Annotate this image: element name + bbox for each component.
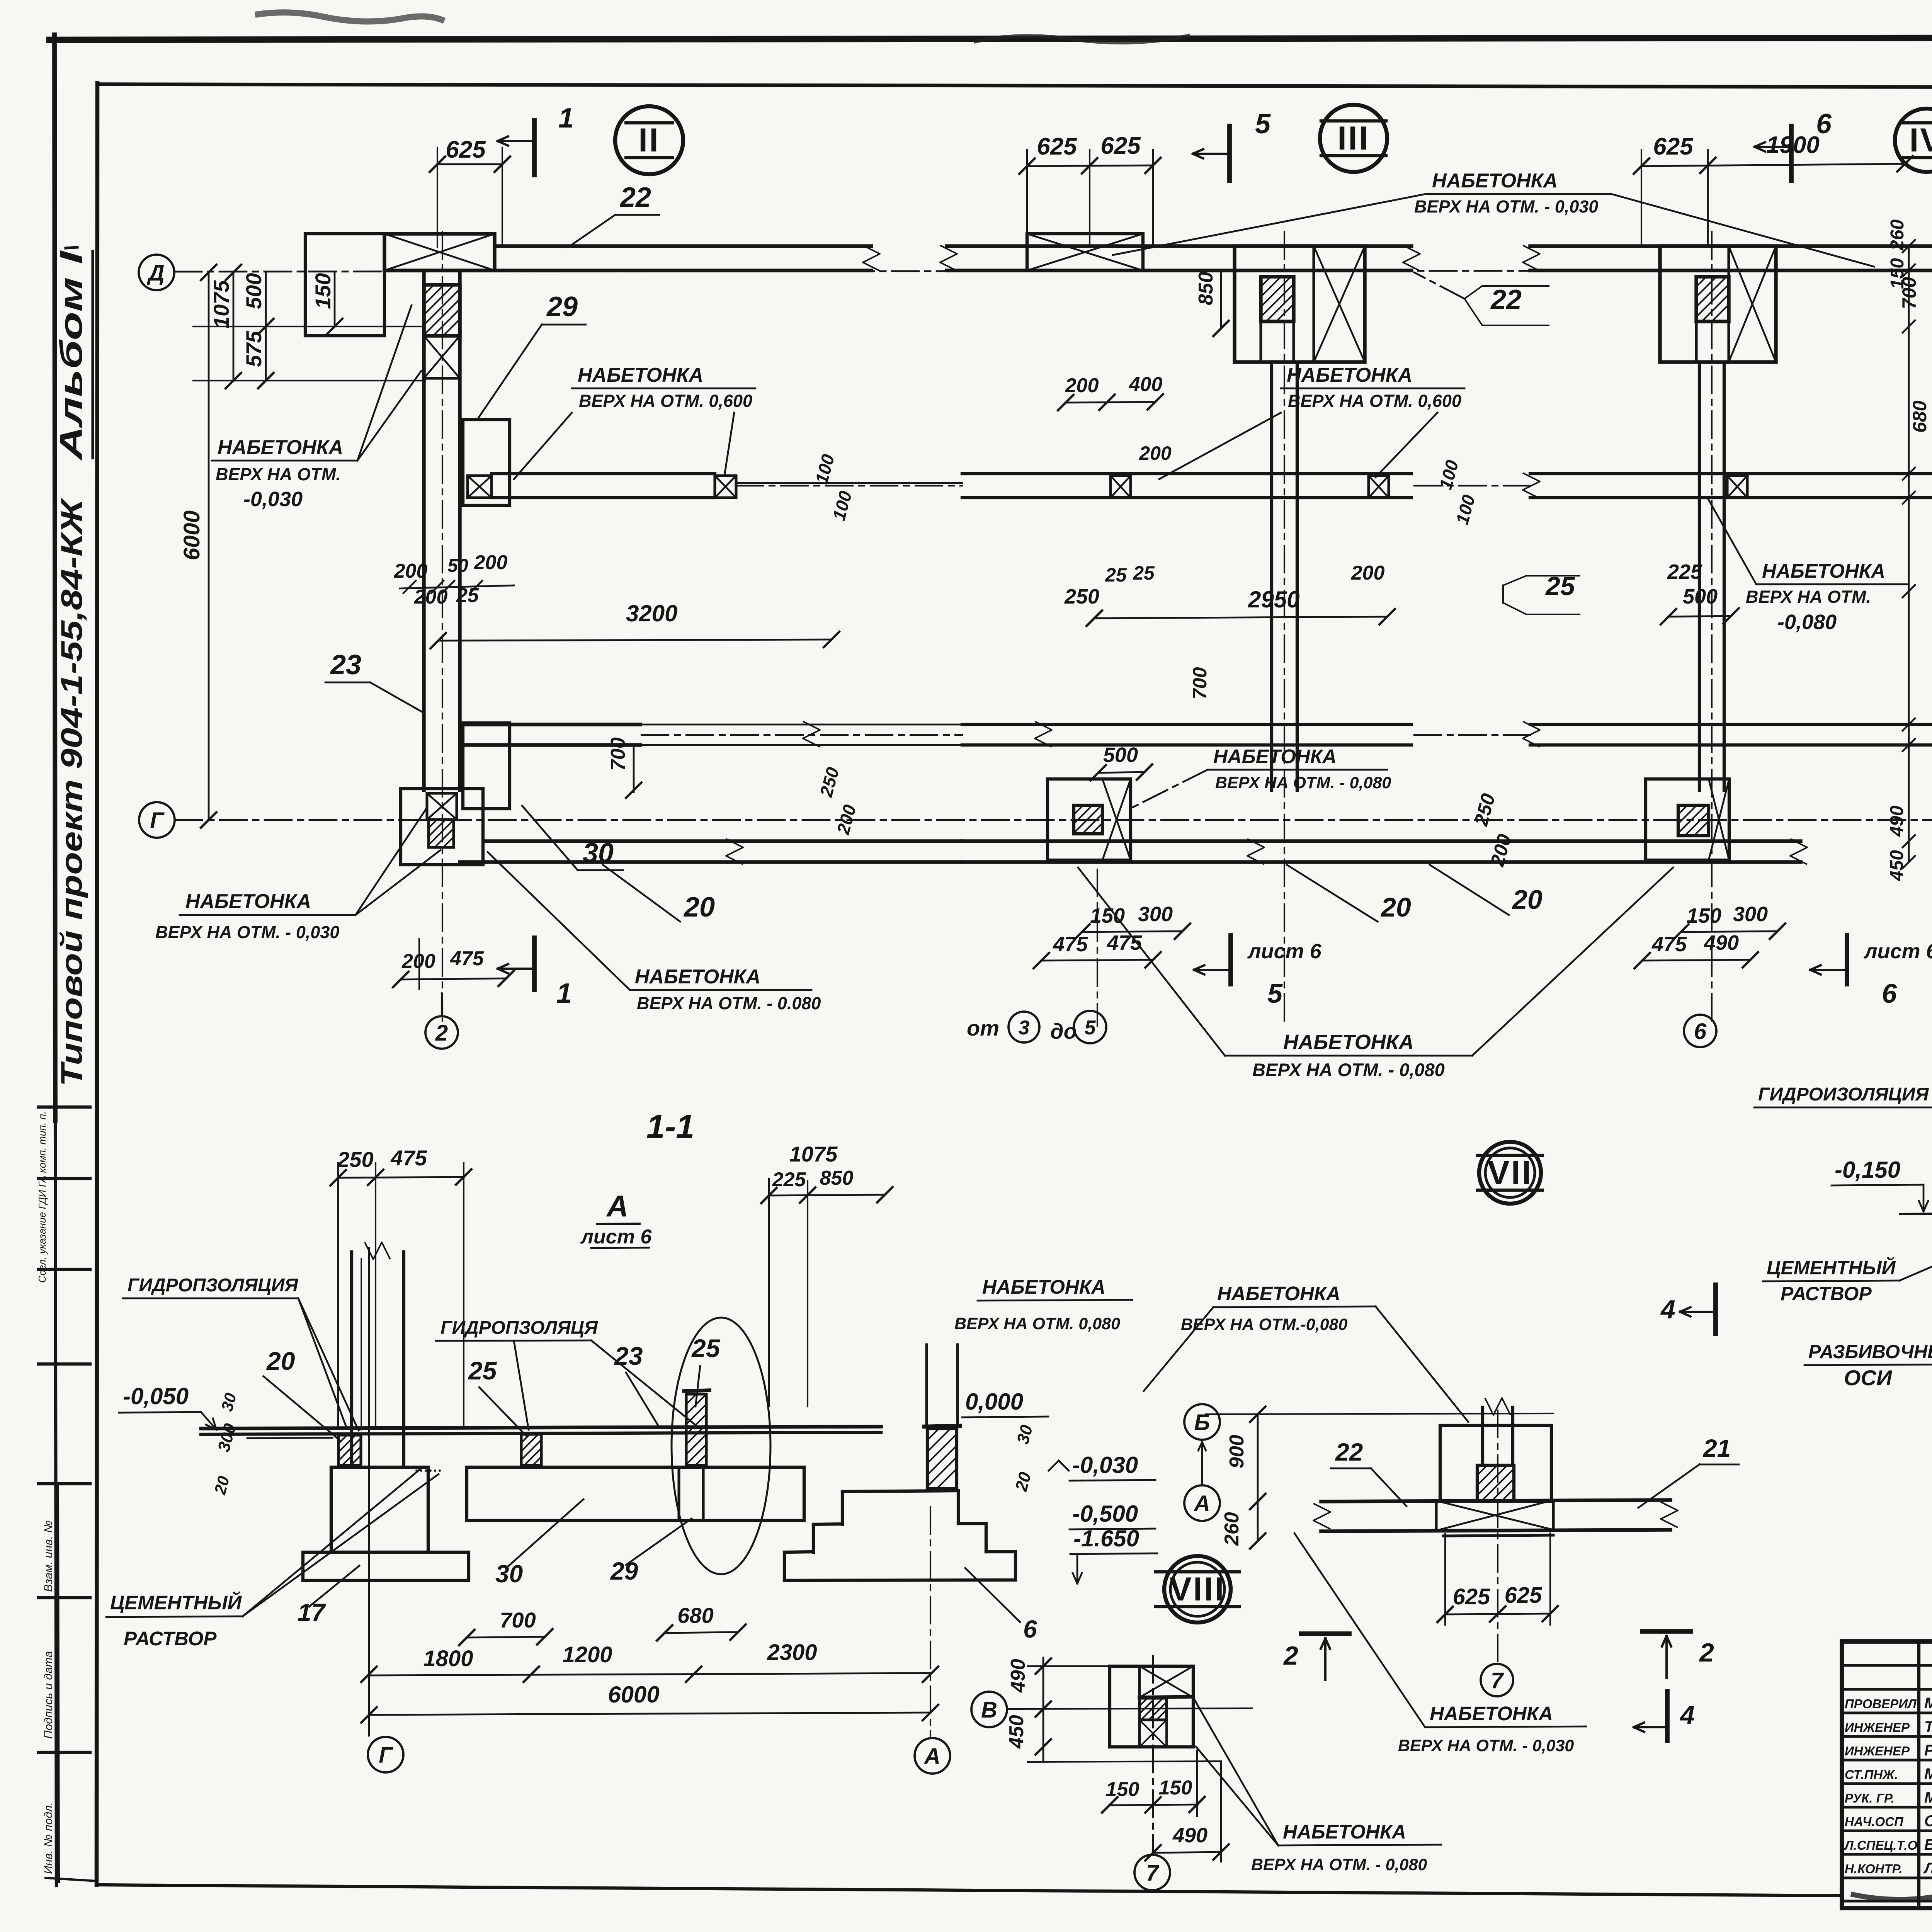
svg-text:1075: 1075: [209, 280, 233, 328]
svg-text:ГИДРОПЗОЛЯЦИЯ: ГИДРОПЗОЛЯЦИЯ: [128, 1275, 298, 1296]
svg-text:МОРГУНОВ: МОРГУНОВ: [1924, 1695, 1932, 1712]
svg-text:ВЕРХ НА ОТМ.: ВЕРХ НА ОТМ.: [216, 464, 341, 484]
svg-text:лист 6: лист 6: [1863, 940, 1932, 963]
scan smudge top left margin: [255, 12, 444, 21]
svg-text:лист 6: лист 6: [580, 1226, 652, 1248]
node III beam X junction: [1027, 234, 1143, 270]
svg-text:450: 450: [1005, 1715, 1028, 1749]
svg-text:НАБЕТОНКА: НАБЕТОНКА: [1213, 745, 1337, 767]
svg-text:Г: Г: [379, 1743, 393, 1768]
svg-text:НАБЕТОНКА: НАБЕТОНКА: [1432, 170, 1558, 192]
svg-text:6: 6: [1023, 1615, 1037, 1643]
VIII left cell divider: [1138, 1666, 1141, 1747]
svg-text:450: 450: [1887, 850, 1907, 881]
svg-text:23: 23: [330, 650, 361, 680]
axis circle А 1-1: [915, 1738, 950, 1774]
svg-text:МОРГУНОВ: МОРГУНОВ: [1924, 1789, 1932, 1806]
svg-text:150: 150: [1159, 1777, 1192, 1799]
svg-text:200: 200: [1351, 562, 1385, 584]
svg-text:Л.СПЕЦ.Т.О.: Л.СПЕЦ.Т.О.: [1844, 1838, 1921, 1852]
svg-text:РАСТВОР: РАСТВОР: [124, 1628, 217, 1650]
svg-text:260: 260: [1887, 219, 1908, 251]
svg-text:ВЕРХ НА ОТМ. - 0.080: ВЕРХ НА ОТМ. - 0.080: [637, 993, 821, 1013]
node IV bottom hatched: [1678, 805, 1709, 836]
axis В line VIII: [971, 1692, 1007, 1727]
svg-text:ВЕРХ НА ОТМ. - 0,080: ВЕРХ НА ОТМ. - 0,080: [1251, 1855, 1427, 1874]
interior beam row1 node II: [468, 476, 492, 498]
node III circle: [1320, 105, 1387, 172]
detail oval ellipse: [672, 1318, 770, 1574]
title block outer box: [1842, 1641, 1932, 1908]
svg-text:СТ.ПНЖ.: СТ.ПНЖ.: [1845, 1767, 1898, 1782]
beam axis Г middle segments: [962, 839, 1801, 843]
svg-text:МАКАРОВА: МАКАРОВА: [1924, 1765, 1932, 1782]
nabetonka block right of column II: [463, 420, 510, 505]
node VII circle: [1479, 1142, 1541, 1204]
svg-text:Согл. указание ГДИ ГА комп: Согл. указание ГДИ ГА комп. тип. п.: [36, 1111, 48, 1283]
VII hatched block: [1477, 1465, 1514, 1501]
svg-text:СААКЬЯНЦ: СААКЬЯНЦ: [1924, 1813, 1932, 1830]
svg-text:625: 625: [1100, 133, 1141, 159]
svg-text:от: от: [967, 1016, 999, 1040]
beam axis Д node III left segment: [947, 244, 1412, 248]
svg-text:490: 490: [1007, 1659, 1029, 1693]
svg-text:Д: Д: [146, 260, 165, 286]
svg-text:НАЧ.ОСП: НАЧ.ОСП: [1845, 1815, 1904, 1829]
svg-text:Г: Г: [150, 808, 165, 833]
axis circle 7 VIII: [1134, 1855, 1170, 1890]
svg-text:150: 150: [1090, 904, 1125, 927]
svg-text:0,000: 0,000: [965, 1389, 1023, 1415]
axis Д circle: [139, 255, 174, 290]
svg-text:В: В: [981, 1697, 997, 1723]
middle pad 1-1: [467, 1467, 804, 1520]
VII column lines: [1481, 1407, 1484, 1465]
axis circle 7 VII: [1481, 1664, 1513, 1696]
sheet outer border top: [49, 37, 1932, 40]
svg-text:250: 250: [337, 1147, 373, 1172]
node IV right dim chain: [1908, 246, 1910, 862]
svg-text:А: А: [923, 1744, 940, 1769]
section mark 4 top near VII: [1713, 1285, 1718, 1334]
svg-text:ВЕРХ НА ОТМ. - 0,080: ВЕРХ НА ОТМ. - 0,080: [1252, 1060, 1445, 1080]
svg-text:лист 6: лист 6: [1247, 940, 1322, 963]
node III column X part: [1314, 246, 1365, 362]
svg-text:2950: 2950: [1248, 587, 1299, 612]
svg-text:475: 475: [450, 947, 484, 970]
inner frame left: [97, 83, 97, 1885]
axis circle А VII: [1184, 1485, 1220, 1521]
svg-text:Альбом I: Альбом I: [54, 250, 89, 461]
svg-text:ИНЖЕНЕР: ИНЖЕНЕР: [1845, 1720, 1910, 1735]
svg-text:ГИДРОПЗОЛЯЦЯ: ГИДРОПЗОЛЯЦЯ: [440, 1318, 598, 1338]
beam along axis Г node II: [486, 839, 962, 843]
svg-text:НАБЕТОНКА: НАБЕТОНКА: [1217, 1282, 1340, 1304]
svg-text:ВЕРХ НА ОТМ.-0,080: ВЕРХ НА ОТМ.-0,080: [1181, 1315, 1347, 1334]
VIII hatched mid: [1139, 1698, 1167, 1720]
cement dots under post1: [415, 1469, 441, 1472]
node II bottom footing block: [401, 789, 483, 865]
svg-text:625: 625: [1037, 133, 1077, 160]
smudge bottom row of table: [1851, 1894, 1932, 1902]
svg-text:ЛУЦЕНКО: ЛУЦЕНКО: [1923, 1860, 1932, 1877]
VII beam: [1321, 1500, 1670, 1502]
svg-text:1900: 1900: [1766, 132, 1820, 158]
node II circle: [615, 106, 683, 174]
section mark 1 top: [532, 120, 537, 175]
svg-text:475: 475: [390, 1146, 427, 1170]
svg-text:300: 300: [1733, 903, 1768, 926]
svg-text:150: 150: [1687, 904, 1721, 927]
svg-text:200: 200: [1065, 374, 1099, 397]
node III bottom footing block: [1048, 779, 1131, 860]
svg-text:VII: VII: [1487, 1154, 1532, 1191]
left footing base 1-1: [303, 1552, 469, 1580]
svg-text:2: 2: [1283, 1641, 1298, 1670]
svg-text:20: 20: [1512, 884, 1543, 915]
svg-text:1800: 1800: [423, 1646, 473, 1671]
axis circle 6 bottom node IV: [1684, 1015, 1716, 1047]
svg-text:680: 680: [1909, 400, 1930, 433]
right column post 22 hatched: [927, 1429, 957, 1489]
svg-text:ИНЖЕНЕР: ИНЖЕНЕР: [1845, 1744, 1910, 1758]
svg-text:200: 200: [394, 560, 428, 582]
title block signature rows: [1842, 1664, 1932, 1667]
svg-text:VIII: VIII: [1169, 1571, 1225, 1608]
node IV circle: [1895, 109, 1932, 172]
svg-text:625: 625: [1653, 133, 1694, 160]
section mark 4 bottom VII: [1665, 1691, 1670, 1741]
node II beam X junction: [384, 234, 495, 270]
svg-text:490: 490: [1172, 1824, 1207, 1847]
svg-text:Типовой проект 904-1-55,84-К: Типовой проект 904-1-55,84-КЖ: [54, 497, 88, 1087]
svg-text:1075: 1075: [789, 1142, 838, 1166]
svg-text:II: II: [638, 122, 660, 159]
svg-text:РУК. ГР.: РУК. ГР.: [1845, 1791, 1895, 1805]
svg-text:29: 29: [610, 1557, 638, 1585]
svg-text:200: 200: [1139, 442, 1172, 464]
svg-text:ВЕРХ НА ОТМ. - 0,030: ВЕРХ НА ОТМ. - 0,030: [155, 922, 339, 942]
svg-text:ВЕРХ НА ОТМ. - 0,030: ВЕРХ НА ОТМ. - 0,030: [1398, 1736, 1574, 1755]
inner frame top: [97, 84, 1932, 88]
left margin stamp boxes line: [58, 1484, 59, 1882]
svg-text:НАБЕТОНКА: НАБЕТОНКА: [578, 364, 703, 386]
axis Г circle: [139, 802, 175, 838]
svg-text:150: 150: [311, 273, 335, 309]
svg-text:-0,080: -0,080: [1777, 611, 1837, 634]
svg-text:ВЕРХ НА ОТМ. 0,600: ВЕРХ НА ОТМ. 0,600: [579, 391, 752, 411]
svg-text:625: 625: [1453, 1584, 1491, 1609]
VIII X box bottom: [1139, 1720, 1167, 1747]
axis circle Г 1-1: [368, 1737, 403, 1772]
column strip node IV: [1698, 362, 1701, 790]
svg-text:500: 500: [1103, 743, 1138, 767]
svg-text:Подпись и дата: Подпись и дата: [42, 1651, 55, 1739]
node IV column block: [1660, 246, 1776, 362]
svg-text:20: 20: [683, 892, 715, 923]
svg-text:900: 900: [1226, 1435, 1248, 1468]
svg-text:ВЕРХ НА ОТМ.: ВЕРХ НА ОТМ.: [1746, 587, 1871, 607]
beam axis Д node IV: [1530, 244, 1932, 248]
svg-text:5: 5: [1255, 109, 1271, 139]
svg-text:200: 200: [474, 551, 508, 574]
svg-text:Инв. № подл.: Инв. № подл.: [42, 1802, 55, 1874]
svg-text:ВЕРХ НА ОТМ. 0,080: ВЕРХ НА ОТМ. 0,080: [954, 1315, 1120, 1333]
svg-text:6000: 6000: [179, 510, 204, 560]
svg-text:ЦЕМЕНТНЫЙ: ЦЕМЕНТНЫЙ: [1767, 1257, 1896, 1279]
svg-text:А: А: [1193, 1491, 1210, 1516]
svg-text:490: 490: [1887, 806, 1907, 837]
svg-text:250: 250: [1064, 585, 1099, 608]
right footing steps 1-1: [842, 1491, 958, 1492]
left column 1-1: [350, 1252, 353, 1467]
svg-text:ПРОВЕРИЛ: ПРОВЕРИЛ: [1845, 1697, 1917, 1711]
svg-text:400: 400: [1129, 373, 1163, 396]
svg-text:625: 625: [1505, 1583, 1543, 1608]
svg-text:1-1: 1-1: [646, 1108, 694, 1145]
svg-text:НАБЕТОНКА: НАБЕТОНКА: [1762, 560, 1885, 582]
svg-text:ВЕРХ НА ОТМ. - 0,030: ВЕРХ НА ОТМ. - 0,030: [1414, 197, 1598, 216]
svg-text:НАБЕТОНКА: НАБЕТОНКА: [218, 436, 343, 459]
svg-text:300: 300: [1138, 903, 1173, 926]
title block signature table verticals: [1917, 1641, 1920, 1908]
svg-text:20: 20: [266, 1347, 295, 1375]
section mark 6 top: [1789, 126, 1794, 181]
svg-text:25: 25: [1105, 564, 1127, 586]
svg-text:150: 150: [1106, 1778, 1139, 1801]
nabetonka block 2 right of column II: [463, 723, 510, 809]
svg-text:ВЕРХ НА ОТМ. 0,600: ВЕРХ НА ОТМ. 0,600: [1288, 391, 1461, 411]
svg-text:23: 23: [614, 1342, 643, 1370]
svg-text:225: 225: [1667, 560, 1702, 583]
VII beam X junction: [1436, 1501, 1553, 1531]
VIII X box top: [1139, 1666, 1193, 1697]
svg-text:6: 6: [1694, 1019, 1707, 1044]
node IV column hatched: [1696, 277, 1729, 321]
svg-text:2300: 2300: [767, 1640, 817, 1665]
inner frame bottom: [97, 1885, 1842, 1896]
svg-text:850: 850: [820, 1167, 854, 1189]
VII axis vertical: [1497, 1410, 1498, 1662]
post 3 hatched in oval: [686, 1394, 706, 1465]
svg-text:ВЕРХ НА ОТМ. - 0,080: ВЕРХ НА ОТМ. - 0,080: [1215, 774, 1391, 792]
section mark 5 bottom лист 6: [1228, 935, 1233, 984]
node III column hatched: [1261, 277, 1294, 321]
svg-text:ТОЛМАЧЕВА: ТОЛМАЧЕВА: [1924, 1718, 1932, 1735]
svg-text:200: 200: [401, 950, 435, 973]
svg-text:20: 20: [1380, 892, 1411, 922]
svg-text:29: 29: [546, 291, 578, 322]
svg-text:РАСТВОР: РАСТВОР: [1781, 1283, 1872, 1304]
beam along axis Д node II: [495, 244, 871, 248]
node IV column X part: [1729, 246, 1776, 362]
floor slab lines 1-1: [201, 1427, 881, 1429]
svg-text:5: 5: [1085, 1017, 1096, 1039]
post 2 hatched 1-1: [521, 1434, 541, 1465]
svg-text:НАБЕТОНКА: НАБЕТОНКА: [635, 966, 760, 988]
column strip node II: [422, 270, 425, 790]
svg-text:22: 22: [1490, 284, 1522, 315]
svg-text:-0,500: -0,500: [1072, 1501, 1138, 1527]
svg-text:30: 30: [495, 1560, 523, 1588]
node IV bottom footing block: [1646, 779, 1729, 860]
svg-text:25: 25: [691, 1334, 721, 1362]
svg-text:500: 500: [241, 273, 266, 309]
svg-text:1800: 1800: [1930, 691, 1932, 736]
svg-text:22: 22: [1335, 1438, 1363, 1466]
svg-text:до: до: [1050, 1019, 1077, 1043]
section mark 1 bottom: [532, 938, 537, 990]
svg-text:625: 625: [446, 136, 486, 163]
svg-text:НАБЕТОНКА: НАБЕТОНКА: [982, 1276, 1105, 1298]
svg-text:850: 850: [1195, 272, 1217, 305]
svg-text:700: 700: [1898, 277, 1920, 309]
svg-text:-1.650: -1.650: [1073, 1526, 1139, 1551]
svg-text:575: 575: [241, 331, 266, 367]
axis circle 2 bottom node II: [425, 1016, 458, 1049]
post 1 hatched 1-1: [338, 1435, 361, 1465]
svg-text:Взам. инв. №: Взам. инв. №: [42, 1520, 55, 1592]
svg-text:475: 475: [1053, 933, 1088, 956]
svg-text:РЕШЕТНИКОВА: РЕШЕТНИКОВА: [1924, 1742, 1932, 1759]
svg-text:700: 700: [500, 1608, 536, 1632]
svg-text:ГИДРОИЗОЛЯЦИЯ: ГИДРОИЗОЛЯЦИЯ: [1758, 1084, 1929, 1105]
svg-text:БОЯРЧЕНКО: БОЯРЧЕНКО: [1924, 1836, 1932, 1853]
axis circle Б VII: [1184, 1404, 1220, 1440]
svg-text:700: 700: [1189, 667, 1211, 699]
svg-text:5: 5: [1267, 978, 1283, 1009]
svg-text:III: III: [1337, 120, 1370, 157]
svg-text:НАБЕТОНКА: НАБЕТОНКА: [185, 890, 311, 913]
svg-text:475: 475: [1651, 933, 1687, 956]
svg-text:7: 7: [1146, 1861, 1160, 1886]
svg-text:2: 2: [1699, 1638, 1714, 1667]
svg-text:50: 50: [447, 556, 468, 576]
svg-text:22: 22: [619, 182, 651, 213]
svg-text:3: 3: [1019, 1017, 1030, 1039]
svg-text:-0,050: -0,050: [123, 1383, 189, 1409]
column II hatched section: [424, 285, 460, 336]
axis Г line: [175, 819, 1932, 821]
svg-text:4: 4: [1660, 1295, 1675, 1324]
svg-text:А: А: [606, 1189, 628, 1223]
svg-text:Н.КОНТР.: Н.КОНТР.: [1845, 1862, 1903, 1876]
node II bottom hatched: [429, 820, 454, 847]
section mark 6 bottom лист 6: [1845, 935, 1849, 984]
column strip node III: [1270, 362, 1273, 790]
axis verticals 1-1: [368, 1248, 370, 1736]
svg-text:1200: 1200: [562, 1642, 612, 1667]
svg-text:НАБЕТОНКА: НАБЕТОНКА: [1283, 1821, 1406, 1843]
3-3 ground line: [1900, 1213, 1932, 1214]
svg-text:260: 260: [1221, 1512, 1243, 1546]
svg-text:НАБЕТОНКА: НАБЕТОНКА: [1430, 1702, 1553, 1725]
svg-text:25: 25: [1133, 562, 1155, 584]
node III bottom hatched: [1074, 805, 1102, 834]
svg-text:3200: 3200: [626, 600, 677, 626]
svg-text:490: 490: [1704, 931, 1739, 954]
left footing 1-1: [331, 1467, 428, 1552]
axis Д line: [175, 270, 1932, 272]
svg-text:-0,030: -0,030: [1072, 1452, 1138, 1478]
svg-text:700: 700: [607, 737, 629, 771]
VIII block outer: [1110, 1666, 1193, 1747]
right column lines 1-1: [925, 1345, 928, 1427]
svg-text:IV: IV: [1909, 122, 1932, 159]
svg-text:1: 1: [556, 978, 572, 1009]
svg-text:НАБЕТОНКА: НАБЕТОНКА: [1283, 1031, 1414, 1054]
svg-text:6000: 6000: [608, 1682, 659, 1708]
svg-text:-0,030: -0,030: [243, 488, 303, 511]
column II X block: [424, 336, 460, 378]
svg-text:17: 17: [298, 1599, 327, 1626]
node III column block: [1235, 246, 1365, 362]
fold mark ticks left margin: [39, 1105, 90, 1109]
svg-text:1: 1: [558, 103, 574, 134]
svg-text:6: 6: [1882, 978, 1897, 1009]
svg-text:РАЗБИВОЧНЫЕ: РАЗБИВОЧНЫЕ: [1808, 1342, 1932, 1362]
svg-text:7: 7: [1491, 1668, 1504, 1693]
interior beam row1 node III: [962, 472, 1412, 475]
interior beam row2 node II: [463, 723, 640, 726]
section mark 5 top: [1227, 126, 1232, 181]
svg-text:2: 2: [435, 1020, 448, 1046]
VII column outer: [1440, 1425, 1551, 1501]
svg-text:25: 25: [468, 1356, 497, 1385]
svg-text:680: 680: [677, 1603, 713, 1628]
svg-text:21: 21: [1703, 1434, 1731, 1462]
svg-text:4: 4: [1679, 1701, 1695, 1730]
svg-text:-0,150: -0,150: [1835, 1157, 1900, 1183]
sheet outer border left: [54, 35, 55, 1121]
interior beam row2 node III segments: [962, 723, 1412, 726]
node VIII circle: [1164, 1556, 1231, 1622]
interior beam row1 right segment: [1530, 472, 1932, 475]
svg-text:ЦЕМЕНТНЫЙ: ЦЕМЕНТНЫЙ: [110, 1591, 242, 1614]
svg-text:200: 200: [414, 586, 448, 608]
svg-text:ОСИ: ОСИ: [1844, 1366, 1893, 1390]
node II corner footing block: [305, 234, 384, 336]
section mark 2 right VII: [1642, 1629, 1690, 1634]
section mark 2 left VII: [1301, 1631, 1349, 1636]
node II bottom X box: [427, 793, 457, 820]
svg-text:НАБЕТОНКА: НАБЕТОНКА: [1287, 364, 1412, 386]
